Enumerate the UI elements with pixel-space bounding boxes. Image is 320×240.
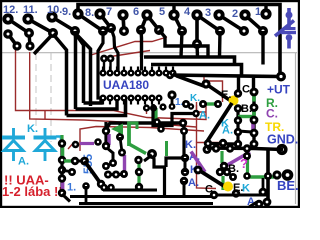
- svg-text:A.: A.: [199, 110, 210, 122]
- svg-text:2: 2: [232, 8, 238, 20]
- svg-text:10.: 10.: [47, 4, 62, 16]
- svg-text:K.: K.: [190, 93, 200, 104]
- svg-text:A.: A.: [188, 177, 199, 189]
- svg-text:1-2 lába !!: 1-2 lába !!: [2, 184, 63, 199]
- svg-text:9.: 9.: [62, 6, 71, 18]
- svg-text:BE.: BE.: [277, 178, 299, 193]
- svg-text:1: 1: [255, 6, 261, 18]
- svg-text:?: ?: [240, 156, 248, 171]
- svg-text:A.: A.: [222, 125, 233, 137]
- svg-text:K.: K.: [27, 123, 38, 135]
- svg-text:7: 7: [106, 6, 112, 18]
- svg-text:3: 3: [205, 7, 211, 19]
- svg-text:5: 5: [159, 6, 165, 18]
- svg-text:C.: C.: [266, 107, 278, 121]
- svg-text:8.: 8.: [85, 7, 94, 19]
- svg-text:UAA180: UAA180: [103, 78, 149, 92]
- svg-text:4: 4: [184, 6, 191, 18]
- svg-text:K: K: [242, 183, 250, 195]
- svg-text:6: 6: [133, 6, 139, 18]
- svg-text:12.: 12.: [3, 4, 18, 16]
- svg-text:1.: 1.: [175, 97, 184, 108]
- svg-text:K.: K.: [185, 139, 196, 151]
- svg-text:A.: A.: [18, 156, 29, 168]
- svg-text:11.: 11.: [23, 4, 38, 16]
- svg-text:E.: E.: [221, 89, 231, 101]
- svg-text:+UT: +UT: [267, 83, 291, 97]
- svg-text:B.: B.: [228, 163, 239, 175]
- svg-text:1.: 1.: [67, 182, 76, 194]
